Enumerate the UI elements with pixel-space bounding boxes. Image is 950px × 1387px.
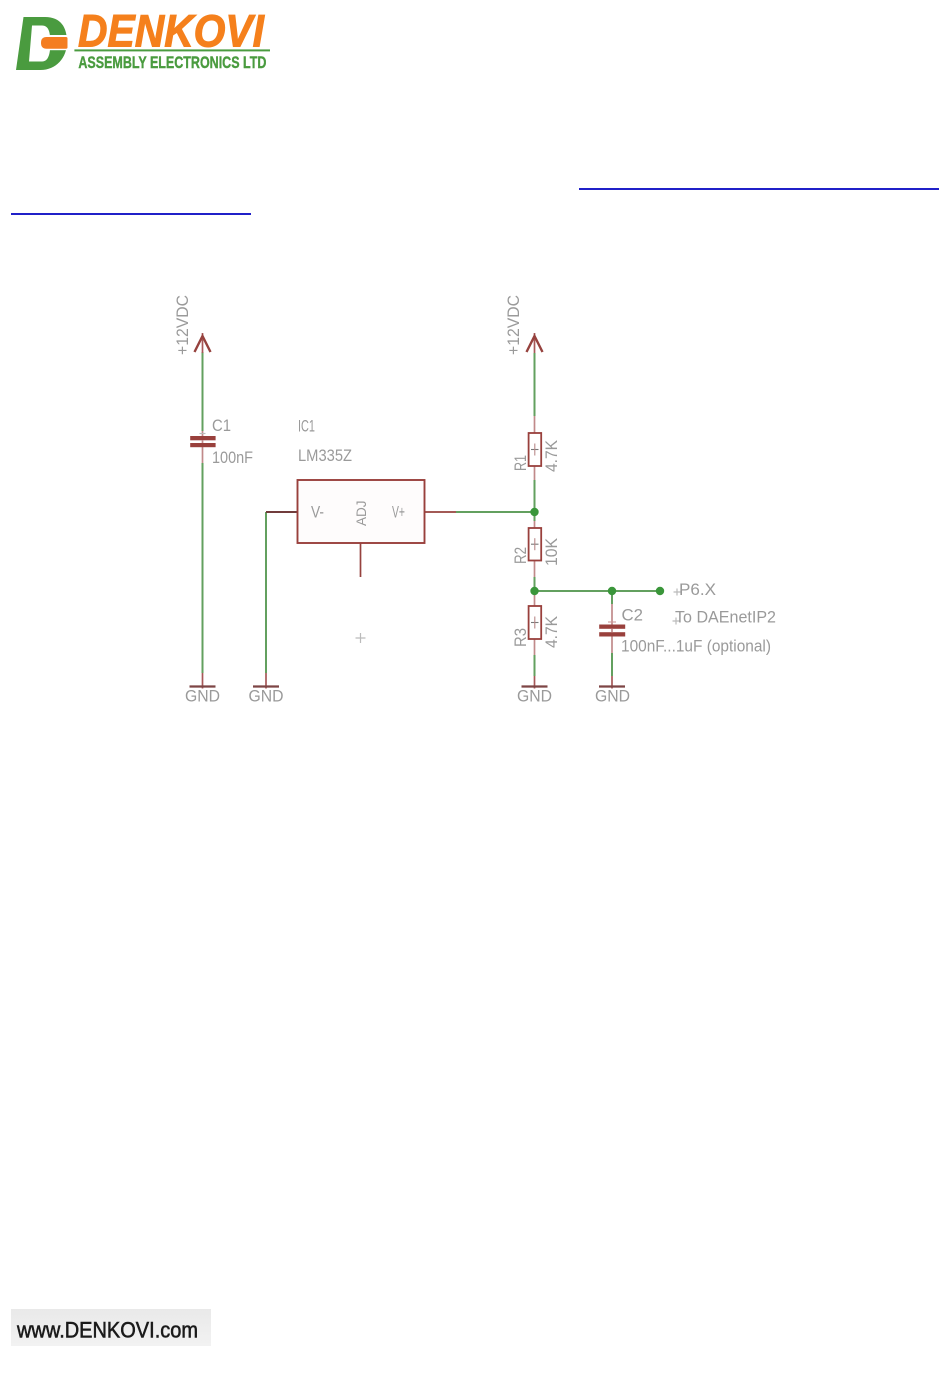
svg-text:100nF...1uF (optional): 100nF...1uF (optional) — [621, 637, 771, 656]
svg-text:To DAEnetIP2: To DAEnetIP2 — [675, 608, 776, 627]
svg-text:GND: GND — [249, 687, 284, 706]
svg-text:www.DENKOVI.com: www.DENKOVI.com — [16, 1318, 198, 1343]
svg-text:C2: C2 — [622, 606, 644, 625]
svg-text:C1: C1 — [212, 416, 231, 435]
svg-text:4.7K: 4.7K — [542, 439, 561, 472]
svg-text:+12VDC: +12VDC — [173, 295, 192, 355]
svg-text:ADJ: ADJ — [354, 500, 369, 526]
svg-text:R2: R2 — [511, 547, 530, 564]
svg-text:10K: 10K — [542, 537, 561, 566]
svg-text:V-: V- — [311, 504, 324, 522]
svg-text:R1: R1 — [511, 455, 530, 471]
svg-text:V+: V+ — [392, 504, 405, 522]
svg-text:GND: GND — [595, 687, 630, 706]
svg-text:GND: GND — [185, 687, 220, 706]
svg-text:P6.X: P6.X — [679, 580, 716, 599]
svg-text:R3: R3 — [511, 628, 530, 647]
svg-text:IC1: IC1 — [298, 417, 315, 436]
svg-text:100nF: 100nF — [212, 448, 253, 467]
svg-text:4.7K: 4.7K — [542, 615, 561, 648]
svg-text:+12VDC: +12VDC — [504, 295, 523, 355]
svg-text:LM335Z: LM335Z — [298, 446, 352, 465]
svg-text:GND: GND — [517, 687, 552, 706]
